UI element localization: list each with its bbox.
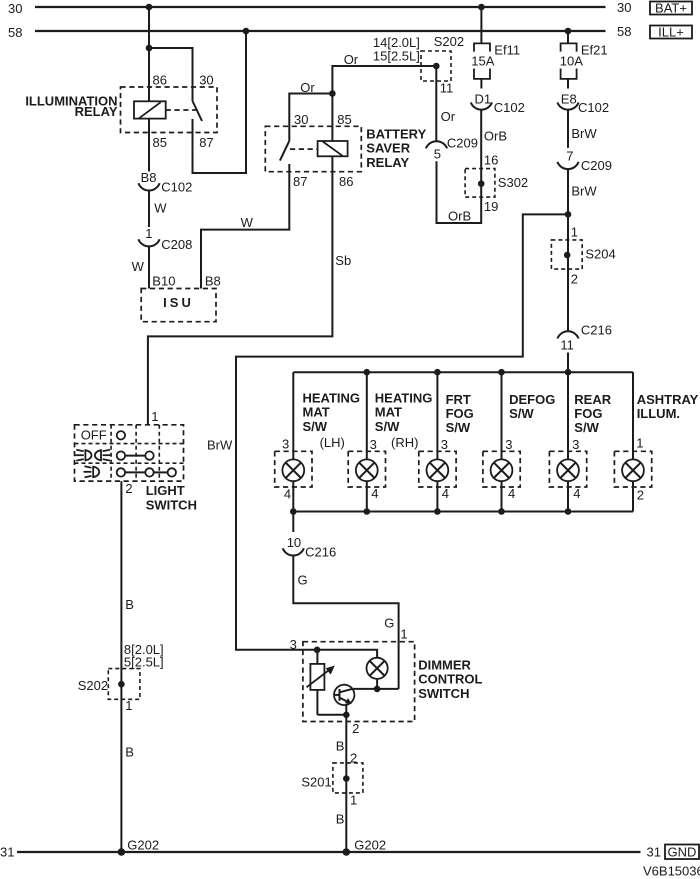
svg-text:S/W: S/W bbox=[509, 406, 534, 421]
wire: coil 86 down (Sb) to light switch 1 bbox=[148, 156, 333, 425]
svg-text:1: 1 bbox=[636, 436, 643, 451]
illumination relay label bbox=[25, 94, 118, 119]
svg-text:G: G bbox=[384, 616, 394, 631]
node bottom bus col2 bbox=[364, 508, 371, 515]
svg-text:1: 1 bbox=[400, 627, 407, 642]
illumination relay contact blade bbox=[193, 101, 203, 121]
ISU box bbox=[141, 289, 216, 322]
node top bus col4 bbox=[498, 369, 505, 376]
light switch head icon bbox=[84, 466, 100, 477]
node dimmer 3 bbox=[314, 647, 321, 654]
svg-text:15A: 15A bbox=[471, 54, 494, 69]
svg-text:1: 1 bbox=[350, 793, 357, 808]
svg-text:E8: E8 bbox=[561, 91, 577, 106]
resistor arrow bbox=[307, 666, 335, 688]
svg-text:3: 3 bbox=[505, 437, 512, 452]
svg-text:S202: S202 bbox=[434, 34, 464, 49]
svg-text:2: 2 bbox=[571, 272, 578, 287]
dimmer variable resistor bbox=[310, 650, 324, 715]
svg-text:GND: GND bbox=[668, 845, 697, 860]
svg-text:BrW: BrW bbox=[207, 438, 233, 453]
svg-text:2: 2 bbox=[637, 488, 644, 503]
svg-text:S302: S302 bbox=[498, 175, 528, 190]
wire: C208 to ISU B10 bbox=[148, 246, 150, 288]
connector C209 pin 7 bbox=[557, 149, 612, 173]
svg-text:ILL+: ILL+ bbox=[658, 25, 684, 40]
wire: lamp to node bbox=[376, 679, 378, 689]
svg-text:4: 4 bbox=[371, 486, 378, 501]
svg-text:G202: G202 bbox=[127, 838, 159, 853]
svg-text:ILLUM.: ILLUM. bbox=[637, 406, 680, 421]
light switch box bbox=[75, 425, 184, 481]
rear fog s/w label bbox=[574, 392, 611, 435]
svg-text:BrW: BrW bbox=[571, 184, 597, 199]
wire: node to transistor collector bbox=[353, 688, 398, 690]
wire: resistor to emitter node bbox=[317, 714, 346, 716]
wire: C102 to C208 bbox=[148, 190, 150, 227]
svg-text:1: 1 bbox=[151, 409, 158, 424]
splice S202 bbox=[78, 669, 140, 700]
ashtray illum label bbox=[637, 392, 699, 421]
svg-text:MAT: MAT bbox=[303, 405, 330, 420]
svg-text:(RH): (RH) bbox=[391, 435, 418, 450]
svg-text:C208: C208 bbox=[161, 237, 192, 252]
svg-text:4: 4 bbox=[284, 487, 291, 502]
svg-text:S/W: S/W bbox=[574, 420, 599, 435]
node: bus30 to fuse Ef11 bbox=[478, 4, 485, 11]
svg-text:B10: B10 bbox=[152, 274, 175, 289]
light switch internal dividers bbox=[75, 425, 184, 481]
lamp ashtray illum bbox=[614, 372, 651, 511]
dimmer lamp bbox=[367, 658, 388, 679]
heating mat s/w (RH) label bbox=[375, 390, 433, 450]
svg-text:3: 3 bbox=[290, 637, 297, 652]
node bottom bus col4 bbox=[498, 508, 505, 515]
node bottom bus col3 bbox=[434, 508, 441, 515]
svg-text:C209: C209 bbox=[447, 136, 478, 151]
svg-text:D1: D1 bbox=[475, 91, 492, 106]
svg-text:4: 4 bbox=[573, 486, 580, 501]
connector C216 pin 11 bbox=[557, 323, 612, 353]
svg-text:86: 86 bbox=[339, 174, 353, 189]
splice S201 bbox=[301, 763, 363, 793]
wire: S202 down to C209 (Or) bbox=[435, 66, 437, 142]
svg-text:1: 1 bbox=[125, 698, 132, 713]
svg-text:30: 30 bbox=[294, 112, 308, 127]
svg-text:30: 30 bbox=[8, 1, 22, 16]
svg-text:Or: Or bbox=[441, 109, 456, 124]
wire: C209 7 down to C216 11 bbox=[567, 169, 569, 332]
svg-text:C102: C102 bbox=[578, 100, 609, 115]
wire: dimmer 2 down to G202 (B) bbox=[345, 715, 347, 852]
svg-text:BAT+: BAT+ bbox=[655, 1, 687, 16]
lamp bottom bus bbox=[293, 511, 633, 513]
frt fog s/w label bbox=[446, 392, 474, 435]
svg-text:RELAY: RELAY bbox=[75, 104, 118, 119]
battery saver coil-contact dashed link bbox=[290, 148, 318, 150]
splice S202 labels 8[2.0L] 5[2.5L] bbox=[124, 642, 164, 670]
svg-text:4: 4 bbox=[442, 486, 449, 501]
connector C102 pin E8 bbox=[557, 91, 609, 115]
svg-text:B: B bbox=[336, 812, 345, 827]
lamp illum defog bbox=[483, 372, 520, 511]
lamp illum rear fog bbox=[549, 372, 586, 511]
light switch contacts row1 bbox=[117, 431, 125, 439]
svg-text:2: 2 bbox=[352, 721, 359, 736]
wire: bottom bus down to C216 10 bbox=[292, 512, 294, 533]
svg-text:ISU: ISU bbox=[163, 295, 194, 310]
svg-text:G: G bbox=[298, 573, 308, 588]
svg-text:Sb: Sb bbox=[335, 253, 351, 268]
svg-text:OrB: OrB bbox=[484, 129, 507, 144]
svg-text:OrB: OrB bbox=[448, 209, 471, 224]
svg-text:DEFOG: DEFOG bbox=[509, 392, 555, 407]
svg-text:1: 1 bbox=[571, 225, 578, 240]
svg-text:C216: C216 bbox=[581, 323, 612, 338]
lamp illum heating mat LH bbox=[275, 372, 312, 511]
svg-text:3: 3 bbox=[282, 437, 289, 452]
svg-text:3: 3 bbox=[441, 437, 448, 452]
wire: battery saver 87 down to ISU B8 bbox=[201, 164, 289, 289]
splice S202 bbox=[421, 34, 464, 81]
dimmer transistor Q bbox=[334, 685, 354, 715]
bus 30 BAT+ bbox=[8, 0, 631, 16]
svg-text:CONTROL: CONTROL bbox=[418, 672, 482, 687]
wire: node 3 to dimmer lamp bbox=[317, 650, 377, 658]
svg-text:B: B bbox=[336, 739, 345, 754]
bus 58 ILL+ bbox=[8, 24, 631, 40]
node dimmer lamp bottom bbox=[374, 686, 381, 693]
wire: C216 10 to dimmer pin 1 (G) bbox=[293, 555, 398, 689]
battery saver contact blade bbox=[280, 141, 289, 161]
wire: light switch 2 down to G202 (B) bbox=[120, 481, 122, 852]
svg-text:BrW: BrW bbox=[571, 126, 597, 141]
wire: coil 85 down to C102 bbox=[148, 119, 150, 172]
wire: long BrW branch to dimmer control switch 3 bbox=[236, 214, 568, 649]
ILL+ tag bbox=[650, 25, 692, 40]
svg-text:Or: Or bbox=[300, 80, 315, 95]
lamp illum heating mat RH bbox=[348, 372, 385, 511]
svg-text:HEATING: HEATING bbox=[375, 390, 433, 405]
illumination relay coil bbox=[134, 101, 166, 118]
svg-text:B8: B8 bbox=[205, 274, 221, 289]
svg-text:30: 30 bbox=[199, 72, 213, 87]
svg-text:B: B bbox=[125, 597, 134, 612]
wire: S202 splice to battery saver relay (Or) bbox=[332, 66, 436, 141]
svg-text:(LH): (LH) bbox=[320, 435, 345, 450]
svg-text:58: 58 bbox=[617, 24, 631, 39]
battery saver coil bbox=[318, 141, 348, 156]
svg-text:G202: G202 bbox=[354, 838, 386, 853]
svg-text:3: 3 bbox=[572, 437, 579, 452]
svg-text:W: W bbox=[241, 215, 254, 230]
svg-text:REAR: REAR bbox=[574, 392, 611, 407]
GND tag bbox=[665, 845, 699, 860]
svg-text:10: 10 bbox=[287, 535, 301, 550]
node top bus col2 bbox=[364, 369, 371, 376]
svg-text:SAVER: SAVER bbox=[366, 141, 410, 156]
svg-text:RELAY: RELAY bbox=[366, 155, 409, 170]
svg-text:MAT: MAT bbox=[375, 405, 402, 420]
node bottom bus col5 bbox=[565, 508, 572, 515]
svg-text:FOG: FOG bbox=[446, 406, 474, 421]
svg-text:85: 85 bbox=[153, 135, 167, 150]
connector C208 pin 1 bbox=[138, 226, 192, 252]
svg-text:31: 31 bbox=[647, 845, 661, 860]
node: branch to contact 30 bbox=[146, 45, 153, 52]
node top bus col3 bbox=[434, 369, 441, 376]
svg-text:SWITCH: SWITCH bbox=[418, 686, 469, 701]
svg-text:DIMMER: DIMMER bbox=[418, 658, 471, 673]
svg-text:30: 30 bbox=[617, 0, 631, 15]
svg-text:7: 7 bbox=[566, 149, 573, 164]
ground G202 left bbox=[118, 838, 160, 856]
node dimmer 2 bbox=[343, 712, 350, 719]
svg-text:B: B bbox=[125, 745, 134, 760]
wire: branch to battery saver contact 30 bbox=[289, 94, 332, 141]
battery saver relay box bbox=[265, 126, 361, 171]
light switch contacts row2 bbox=[117, 451, 154, 459]
node bottom bus col1 bbox=[290, 508, 297, 515]
svg-text:S202: S202 bbox=[78, 678, 108, 693]
connector C102 pin B8 bbox=[138, 170, 192, 195]
wire: C216 11 to lamp bus bbox=[567, 353, 569, 373]
svg-text:C216: C216 bbox=[305, 545, 336, 560]
svg-text:1: 1 bbox=[145, 226, 152, 241]
svg-text:3: 3 bbox=[370, 437, 377, 452]
splice S202 labels 14[2.0L] 15[2.5L] bbox=[373, 35, 420, 64]
svg-text:S204: S204 bbox=[585, 247, 615, 262]
svg-text:10A: 10A bbox=[560, 54, 583, 69]
dimmer control switch box bbox=[303, 642, 415, 722]
splice S302 bbox=[465, 169, 528, 198]
connector C102 pin D1 bbox=[471, 91, 525, 115]
svg-text:5[2.5L]: 5[2.5L] bbox=[124, 655, 164, 670]
wire: C102 E8 to C209 7 bbox=[567, 110, 569, 148]
battery saver relay label bbox=[366, 127, 426, 170]
svg-text:ASHTRAY: ASHTRAY bbox=[637, 392, 699, 407]
svg-text:11: 11 bbox=[440, 80, 454, 95]
wire: branch to illumination relay contact 30 bbox=[149, 48, 193, 101]
node: battery saver coil/contact branch bbox=[329, 90, 336, 97]
svg-text:LIGHT: LIGHT bbox=[146, 483, 185, 498]
wire: C209 pin5 down and over to S302 19 (OrB) bbox=[437, 109, 482, 223]
svg-text:Or: Or bbox=[344, 52, 359, 67]
illumination relay coil-contact dashed link bbox=[166, 109, 196, 111]
connector C216 pin 10 bbox=[283, 535, 336, 560]
svg-text:S/W: S/W bbox=[375, 419, 400, 434]
light switch contacts row3 bbox=[117, 468, 176, 476]
node: branch to dimmer feed bbox=[565, 211, 572, 218]
fuse Ef11 bbox=[471, 7, 520, 89]
svg-text:S201: S201 bbox=[301, 775, 331, 790]
svg-text:W: W bbox=[132, 259, 145, 274]
ground G202 right bbox=[343, 838, 387, 856]
svg-text:58: 58 bbox=[8, 25, 22, 40]
wire: contact 87 down right up to bus58 bbox=[193, 31, 247, 173]
lamp illum frt fog bbox=[419, 372, 456, 511]
connector C209 pin 5 bbox=[426, 136, 478, 162]
svg-text:16: 16 bbox=[484, 153, 498, 168]
svg-text:C102: C102 bbox=[161, 180, 192, 195]
svg-text:4: 4 bbox=[508, 486, 515, 501]
svg-text:15[2.5L]: 15[2.5L] bbox=[373, 49, 420, 64]
BAT+ tag bbox=[650, 1, 692, 16]
fuse Ef21 bbox=[560, 31, 608, 89]
dimmer control switch label bbox=[418, 658, 482, 701]
splice S204 bbox=[551, 240, 615, 269]
svg-text:86: 86 bbox=[153, 72, 167, 87]
svg-text:B8: B8 bbox=[141, 170, 157, 185]
svg-text:S/W: S/W bbox=[446, 420, 471, 435]
svg-text:5: 5 bbox=[434, 147, 441, 162]
svg-text:FOG: FOG bbox=[574, 406, 602, 421]
svg-text:C209: C209 bbox=[581, 158, 612, 173]
light switch park icon bbox=[75, 450, 111, 461]
node: bus58 to fuse Ef21 bbox=[565, 28, 572, 35]
svg-text:Ef11: Ef11 bbox=[494, 43, 520, 58]
heating mat s/w (LH) label bbox=[303, 390, 361, 450]
svg-text:85: 85 bbox=[337, 112, 351, 127]
node top bus col5 bbox=[565, 369, 572, 376]
svg-text:BATTERY: BATTERY bbox=[366, 127, 426, 142]
node: bus58 from illumination relay 87 bbox=[243, 28, 250, 35]
svg-text:87: 87 bbox=[199, 135, 213, 150]
light switch label bbox=[146, 483, 197, 513]
svg-text:FRT: FRT bbox=[446, 392, 471, 407]
illumination relay box bbox=[121, 87, 218, 133]
svg-text:OFF: OFF bbox=[81, 428, 107, 443]
svg-text:V6B15036: V6B15036 bbox=[643, 863, 700, 878]
svg-text:C102: C102 bbox=[494, 100, 525, 115]
svg-text:2: 2 bbox=[125, 481, 132, 496]
bus 31 GND bbox=[0, 845, 661, 860]
svg-text:Ef21: Ef21 bbox=[581, 43, 608, 58]
svg-text:87: 87 bbox=[293, 174, 307, 189]
svg-text:11: 11 bbox=[560, 338, 574, 353]
svg-text:31: 31 bbox=[0, 845, 14, 860]
svg-text:W: W bbox=[154, 200, 167, 215]
defog s/w label bbox=[509, 392, 555, 421]
wire: bus30 down to illumination relay coil 86 bbox=[148, 7, 150, 101]
node: bus30 to illumination relay bbox=[146, 4, 153, 11]
svg-text:S/W: S/W bbox=[303, 419, 328, 434]
svg-text:19: 19 bbox=[484, 199, 498, 214]
svg-text:SWITCH: SWITCH bbox=[146, 498, 197, 513]
svg-text:HEATING: HEATING bbox=[303, 390, 361, 405]
lamp top bus bbox=[293, 371, 633, 373]
